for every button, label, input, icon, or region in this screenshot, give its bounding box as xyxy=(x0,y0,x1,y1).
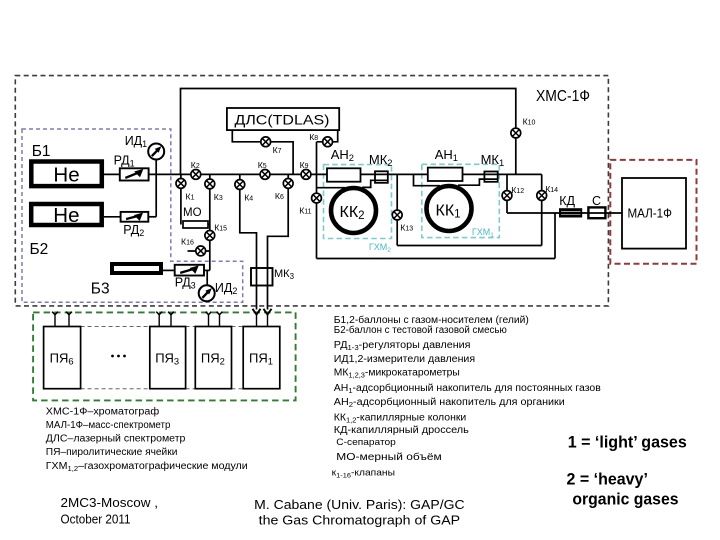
svg-text:Б3: Б3 xyxy=(91,281,110,298)
wire: RD2 to riser xyxy=(149,216,157,218)
wire: K16 vent stub xyxy=(188,250,210,252)
wire: K1 branch down to MO xyxy=(180,174,182,224)
wire: line B riser to detector line xyxy=(554,213,556,259)
gas bottles unit boundary B1-B3 (blue dashed stepped box) xyxy=(22,129,243,302)
valve K1 xyxy=(176,179,186,189)
capillary column KK1 (circle) xyxy=(427,186,472,231)
valve K14 xyxy=(537,191,547,201)
valve K4 xyxy=(235,180,245,190)
pyrolysis cell PYa6 xyxy=(44,327,81,389)
ellipsis between PYa6 and PYa3 xyxy=(111,355,114,358)
svg-text:ДЛС–лазерный спектрометр: ДЛС–лазерный спектрометр xyxy=(46,434,186,445)
svg-text:M. Cabane (Univ. Paris): GAP/G: M. Cabane (Univ. Paris): GAP/GC xyxy=(254,498,464,512)
wire: DLS left port down to K7 line xyxy=(232,130,293,174)
wire: K3/K15 branch down to RD3 node xyxy=(209,174,211,270)
GC module GXM1 boundary (cyan dashed box) xyxy=(422,164,500,237)
svg-text:МО-мерный объём: МО-мерный объём xyxy=(336,451,441,463)
GC module GXM2 boundary (cyan dashed box) xyxy=(324,165,392,239)
wire: K8/K11 vertical line xyxy=(316,142,318,259)
valve K5 xyxy=(260,170,270,180)
microkatharometer MK1 box xyxy=(484,172,497,182)
valve K7 xyxy=(261,137,271,147)
chromatograph unit boundary XMC-1F (dashed box) xyxy=(15,76,608,306)
gas bottle B2 (He) xyxy=(31,204,102,225)
dashed connector top between pyrolysis cells xyxy=(81,326,150,328)
wire: MO to K3 riser stub xyxy=(208,224,210,226)
dashed connector bottom between pyrolysis cells xyxy=(81,388,150,390)
wire: bottom transfer line B xyxy=(317,258,556,260)
wire: ID1/RD2 riser xyxy=(155,160,157,217)
svg-text:КД-капиллярный дроссель: КД-капиллярный дроссель xyxy=(334,425,469,436)
arrow into PYa1 right (open chevron) xyxy=(264,309,272,315)
valve K10 xyxy=(511,128,521,138)
svg-text:С: С xyxy=(592,194,601,208)
wire: KK1 column inlet from MK2 output node xyxy=(414,174,441,185)
pyrolysis cells unit boundary (green dashed box) xyxy=(33,312,296,400)
adsorption trap AN2 box xyxy=(327,168,361,181)
svg-text:КД: КД xyxy=(559,194,575,208)
wire: DLS right port down to K8 xyxy=(317,130,338,142)
wire: KK2 column outlet to MK2 lower port xyxy=(362,180,388,187)
svg-text:МО: МО xyxy=(183,207,202,219)
capillary column KK2 (circle) xyxy=(331,188,376,233)
svg-text:October 2011: October 2011 xyxy=(61,512,131,526)
wire: bottom transfer line A xyxy=(397,245,542,247)
wire: K13 branch down xyxy=(396,174,398,245)
wire: main carrier line RD1 to K14 branch xyxy=(149,173,542,175)
capillary restrictor KD (black block) xyxy=(560,209,582,217)
svg-text:2 = ‘heavy’: 2 = ‘heavy’ xyxy=(567,470,648,488)
svg-text:Б2: Б2 xyxy=(30,241,49,258)
adsorption trap AN1 box xyxy=(428,168,463,181)
svg-text:АН2-адсорбционный накопитель д: АН2-адсорбционный накопитель для органик… xyxy=(334,396,565,409)
separator C box xyxy=(588,207,605,218)
wire: K6 branch down to MK3 right line xyxy=(268,174,289,309)
wire: He1 to RD1 xyxy=(104,173,121,175)
wire: node to ID2 gauge xyxy=(206,270,208,285)
arrow into PYa1 left (open chevron) xyxy=(253,309,261,315)
pyrolysis cell PYa1 xyxy=(243,327,280,389)
svg-text:Не: Не xyxy=(53,163,79,186)
valve K3 xyxy=(205,179,215,189)
svg-text:Не: Не xyxy=(53,204,79,227)
wire: KK2 column inlet xyxy=(317,187,346,189)
svg-text:С-сепаратор: С-сепаратор xyxy=(336,437,396,448)
wire: detector line to MAL-1F xyxy=(507,212,622,214)
svg-text:Б2-баллон с тестовой газовой с: Б2-баллон с тестовой газовой смесью xyxy=(334,324,507,336)
svg-text:ИД1,2-измерители давления: ИД1,2-измерители давления xyxy=(334,354,475,365)
laser spectrometer DLS(TDLAS) box xyxy=(227,108,339,130)
gas bottle B3 (test mixture) xyxy=(112,264,161,273)
valve K16 xyxy=(196,246,206,256)
pyrolysis cell PYa2 xyxy=(195,327,231,389)
wire: K12 branch down xyxy=(506,174,508,213)
wire: RD3 to riser stub xyxy=(204,269,210,271)
wire: K14 vertical xyxy=(541,174,543,245)
svg-text:МАЛ-1Ф–масс-спектрометр: МАЛ-1Ф–масс-спектрометр xyxy=(46,420,171,431)
valve K11 xyxy=(312,193,322,203)
pressure gauge ID1 xyxy=(148,144,164,160)
svg-text:organic gases: organic gases xyxy=(572,490,678,508)
svg-text:ХМС-1Ф–хроматограф: ХМС-1Ф–хроматограф xyxy=(46,406,159,418)
svg-text:ХМС-1Ф: ХМС-1Ф xyxy=(536,88,590,105)
svg-text:ДЛС(TDLAS): ДЛС(TDLAS) xyxy=(235,112,330,128)
measuring volume MO xyxy=(183,221,208,228)
wire: KK1 column outlet to MK1 lower port xyxy=(458,179,498,185)
svg-text:Б1: Б1 xyxy=(32,143,51,160)
svg-text:ПЯ–пиролитические ячейки: ПЯ–пиролитические ячейки xyxy=(46,447,178,458)
mass-spectrometer MAL-1F box xyxy=(622,178,686,249)
microkatharometer MK3 box xyxy=(251,268,273,286)
svg-text:МАЛ-1Ф: МАЛ-1Ф xyxy=(628,206,672,220)
valve K8 xyxy=(323,137,333,147)
microkatharometer MK2 box xyxy=(375,171,388,183)
valve K6 xyxy=(283,179,293,189)
svg-text:Б1,2-баллоны с газом-носителем: Б1,2-баллоны с газом-носителем (гелий) xyxy=(334,314,529,326)
mass-spectrometer boundary (red dashed box) xyxy=(610,160,696,264)
valve K13 xyxy=(392,210,402,220)
pressure gauge ID2 xyxy=(199,285,215,301)
wire: K4 branch down to MK3 left line xyxy=(240,174,257,309)
svg-text:the Gas Chromatograph of GAP: the Gas Chromatograph of GAP xyxy=(259,514,460,528)
pyrolysis cell PYa3 xyxy=(150,327,186,389)
svg-text:1 = ‘light’ gases: 1 = ‘light’ gases xyxy=(568,434,687,452)
wire: B3 to RD3 xyxy=(163,269,175,271)
valve K2 xyxy=(191,170,201,180)
wire: bypass loop top (K10 line) xyxy=(181,89,516,175)
gas bottle B1 (He) xyxy=(31,162,102,187)
pressure regulator RD3 xyxy=(175,265,204,276)
wire: He2 to RD2 xyxy=(104,216,121,218)
valve K12 xyxy=(502,191,512,201)
svg-text:АН1-адсорбционный накопитель д: АН1-адсорбционный накопитель для постоян… xyxy=(334,382,601,395)
pressure regulator RD2 xyxy=(121,212,149,222)
valve K9 xyxy=(301,170,311,180)
pressure regulator RD1 xyxy=(120,168,149,180)
svg-text:2МС3-Moscow ,: 2МС3-Moscow , xyxy=(61,496,159,510)
valve K15 xyxy=(205,231,215,241)
